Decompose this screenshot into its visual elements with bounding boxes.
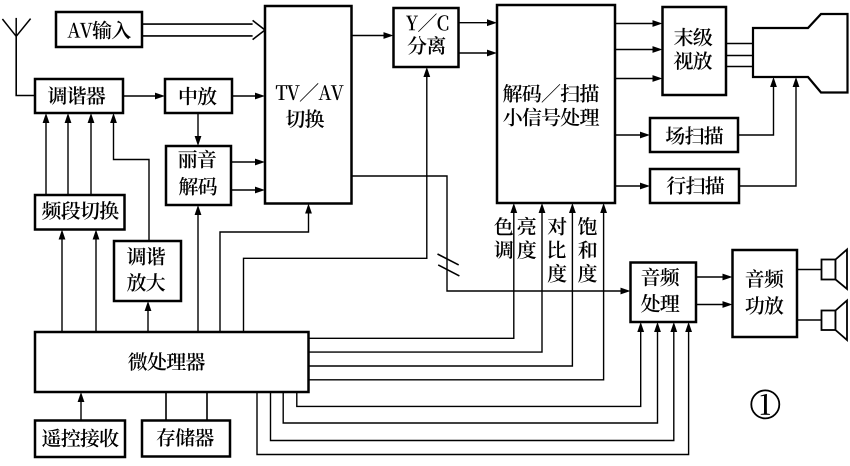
wire 微处理器 to 解码 对比度	[309, 203, 576, 366]
label 色调 (hue)	[494, 217, 513, 259]
label 饱和度 (saturation)	[578, 217, 597, 283]
wire 微处理器 to 音频处理 line4	[257, 322, 692, 455]
wire 微处理器 to 调谐放大	[145, 301, 152, 332]
wire 末级视放 to CRT three lines	[726, 44, 753, 67]
wire 微处理器 to 频段切换 line2	[93, 230, 100, 333]
wire 场扫描 to CRT	[738, 77, 777, 135]
break symbol on audio wire	[438, 254, 460, 276]
wire 频段切换 to 调谐器 line1	[43, 113, 50, 195]
wire 遥控接收 to 微处理器	[78, 392, 85, 421]
wire TV/AV to Y/C分离	[352, 32, 394, 39]
wire 微处理器 to 解码 色调	[309, 203, 518, 338]
block 音频处理 (audio processing)	[631, 263, 697, 323]
wire 解码 to 末级视放 G	[615, 46, 663, 53]
wire 音频功放 to speaker2	[797, 319, 822, 321]
label 对比度 (contrast)	[548, 217, 567, 283]
wire 音频功放 to speaker1	[797, 269, 822, 271]
wire 微处理器 to 解码 亮度	[309, 203, 546, 352]
wire 解码 to 末级视放 B	[615, 75, 663, 82]
wire Y/C to 解码 chroma	[459, 50, 498, 57]
block AV输入 (AV input)	[56, 12, 142, 47]
wire 微处理器 to 频段切换 line1	[59, 230, 66, 333]
block Y/C 分离 (Y/C separation)	[394, 8, 459, 67]
wire 微处理器 to 丽音解码	[195, 205, 202, 332]
wire 频段切换 to 调谐器 line2	[65, 113, 72, 195]
wire antenna to 调谐器	[16, 36, 35, 95]
wire 存储器 to 微处理器 bus	[166, 392, 207, 421]
wire 丽音解码 to TV/AV lower	[231, 187, 265, 194]
wire 解码 to 行扫描	[615, 183, 650, 190]
block 中放 (IF amplifier)	[165, 79, 232, 113]
block 微处理器 (microprocessor)	[35, 332, 309, 392]
wire 微处理器 to Y/C control	[244, 67, 431, 332]
wire 中放 to 丽音解码	[195, 113, 202, 146]
wire TV/AV audio to 音频处理	[352, 176, 631, 294]
block 解码/扫描小信号处理 (decode/scan small-signal processing)	[497, 5, 615, 203]
block 遥控接收 (remote receiver)	[35, 421, 125, 458]
block 频段切换 (band switch)	[35, 195, 125, 230]
wire 微处理器 to TV/AV control	[220, 204, 312, 333]
block 场扫描 (vertical scan)	[650, 118, 738, 152]
speaker 2	[822, 301, 848, 341]
wire 微处理器 to 解码 饱和度	[309, 203, 608, 380]
block 末级视放 (final video amplifier)	[663, 7, 727, 95]
block 调谐放大 (tuning amplifier)	[114, 241, 181, 301]
CRT picture tube	[753, 14, 848, 93]
wire 音频处理 to 音频功放 L	[696, 274, 733, 281]
wire 中放 to TV/AV	[232, 93, 265, 100]
wire 丽音解码 to TV/AV upper	[231, 159, 265, 166]
block 音频功放 (audio power amplifier)	[733, 250, 798, 337]
figure number ①	[751, 390, 779, 418]
wire 解码 to 场扫描	[615, 132, 650, 139]
wire 调谐器 to 中放	[123, 93, 165, 100]
block TV/AV 切换 (TV/AV switch)	[265, 6, 352, 204]
block 行扫描 (horizontal scan)	[650, 169, 739, 203]
wire 微处理器 to 音频处理 line2	[283, 322, 661, 423]
speaker 1	[822, 250, 848, 290]
wire 频段切换 to 调谐器 line3	[88, 113, 95, 195]
block 丽音解码 (NICAM decoder)	[166, 146, 231, 205]
block 存储器 (memory)	[142, 421, 230, 457]
wire 微处理器 to 音频处理 line3	[271, 322, 678, 441]
wire 音频处理 to 音频功放 R	[696, 301, 733, 308]
block 调谐器 (tuner)	[35, 79, 123, 113]
label 亮度 (brightness)	[517, 217, 536, 259]
wire 调谐放大 to 调谐器 tuning voltage	[110, 113, 149, 241]
wire 行扫描 to CRT	[739, 77, 799, 186]
wire 微处理器 to 音频处理 line1	[297, 322, 644, 406]
antenna	[2, 18, 30, 36]
wire Y/C to 解码 luma	[459, 19, 498, 26]
wire AV输入 to TV/AV hollow arrow	[142, 20, 265, 39]
wire 解码 to 末级视放 R	[615, 20, 663, 27]
